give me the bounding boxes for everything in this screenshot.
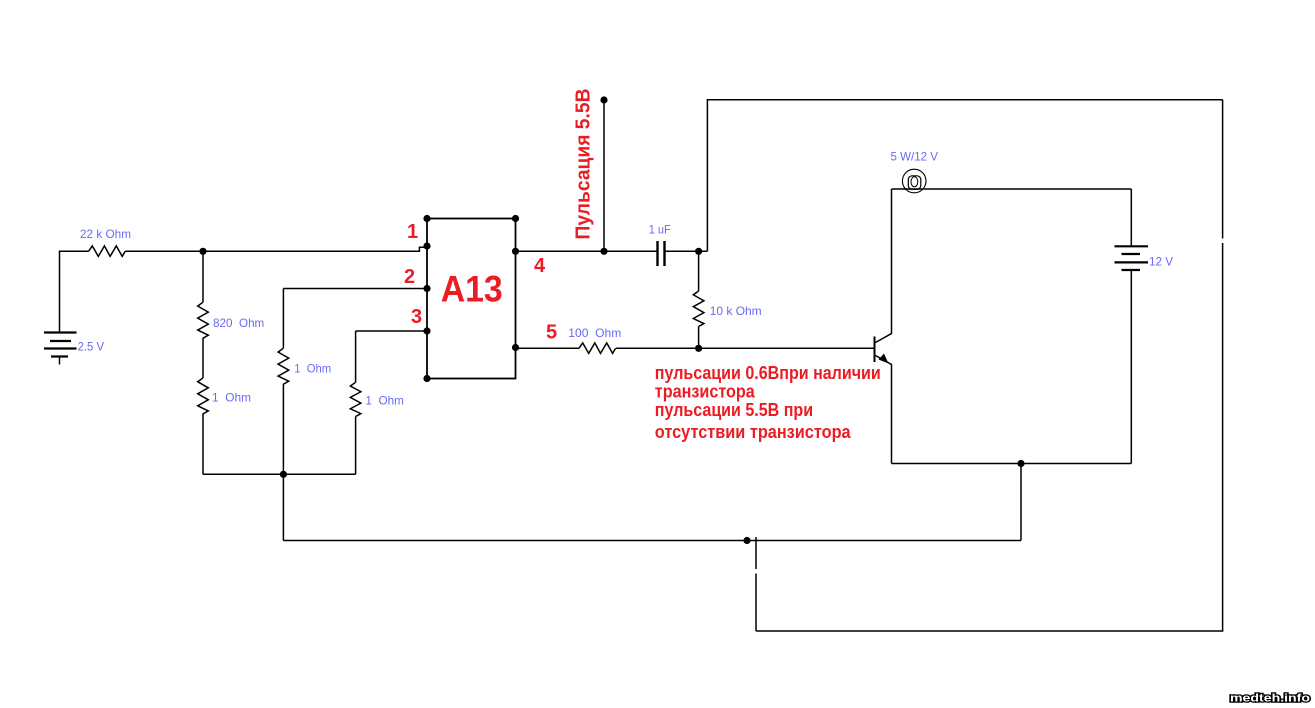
svg-text:10 k Ohm: 10 k Ohm [710,304,762,318]
svg-text:100 Ohm: 100 Ohm [568,326,621,340]
svg-text:1 uF: 1 uF [649,223,671,237]
svg-text:2: 2 [404,266,415,288]
svg-text:1 Ohm: 1 Ohm [294,362,331,376]
svg-text:12 V: 12 V [1149,254,1173,268]
svg-text:3: 3 [411,306,422,328]
svg-text:A13: A13 [441,269,503,310]
svg-text:пульсации 0.6Впри наличии: пульсации 0.6Впри наличии [655,363,881,383]
svg-text:1 Ohm: 1 Ohm [365,394,404,408]
svg-text:транзистора: транзистора [655,382,756,402]
svg-text:5: 5 [546,321,557,343]
svg-text:22 k Ohm: 22 k Ohm [80,227,131,241]
svg-text:820 Ohm: 820 Ohm [213,316,264,330]
svg-text:Пульсация 5.5В: Пульсация 5.5В [573,89,595,240]
svg-text:1: 1 [407,221,418,243]
svg-text:medteh.info: medteh.info [1230,693,1310,705]
svg-text:пульсации 5.5В при: пульсации 5.5В при [655,400,813,420]
svg-text:2.5 V: 2.5 V [78,339,105,353]
svg-text:отсутствии транзистора: отсутствии транзистора [655,422,852,442]
svg-text:5 W/12 V: 5 W/12 V [891,150,939,164]
svg-text:4: 4 [534,255,546,277]
svg-text:1 Ohm: 1 Ohm [212,391,251,405]
